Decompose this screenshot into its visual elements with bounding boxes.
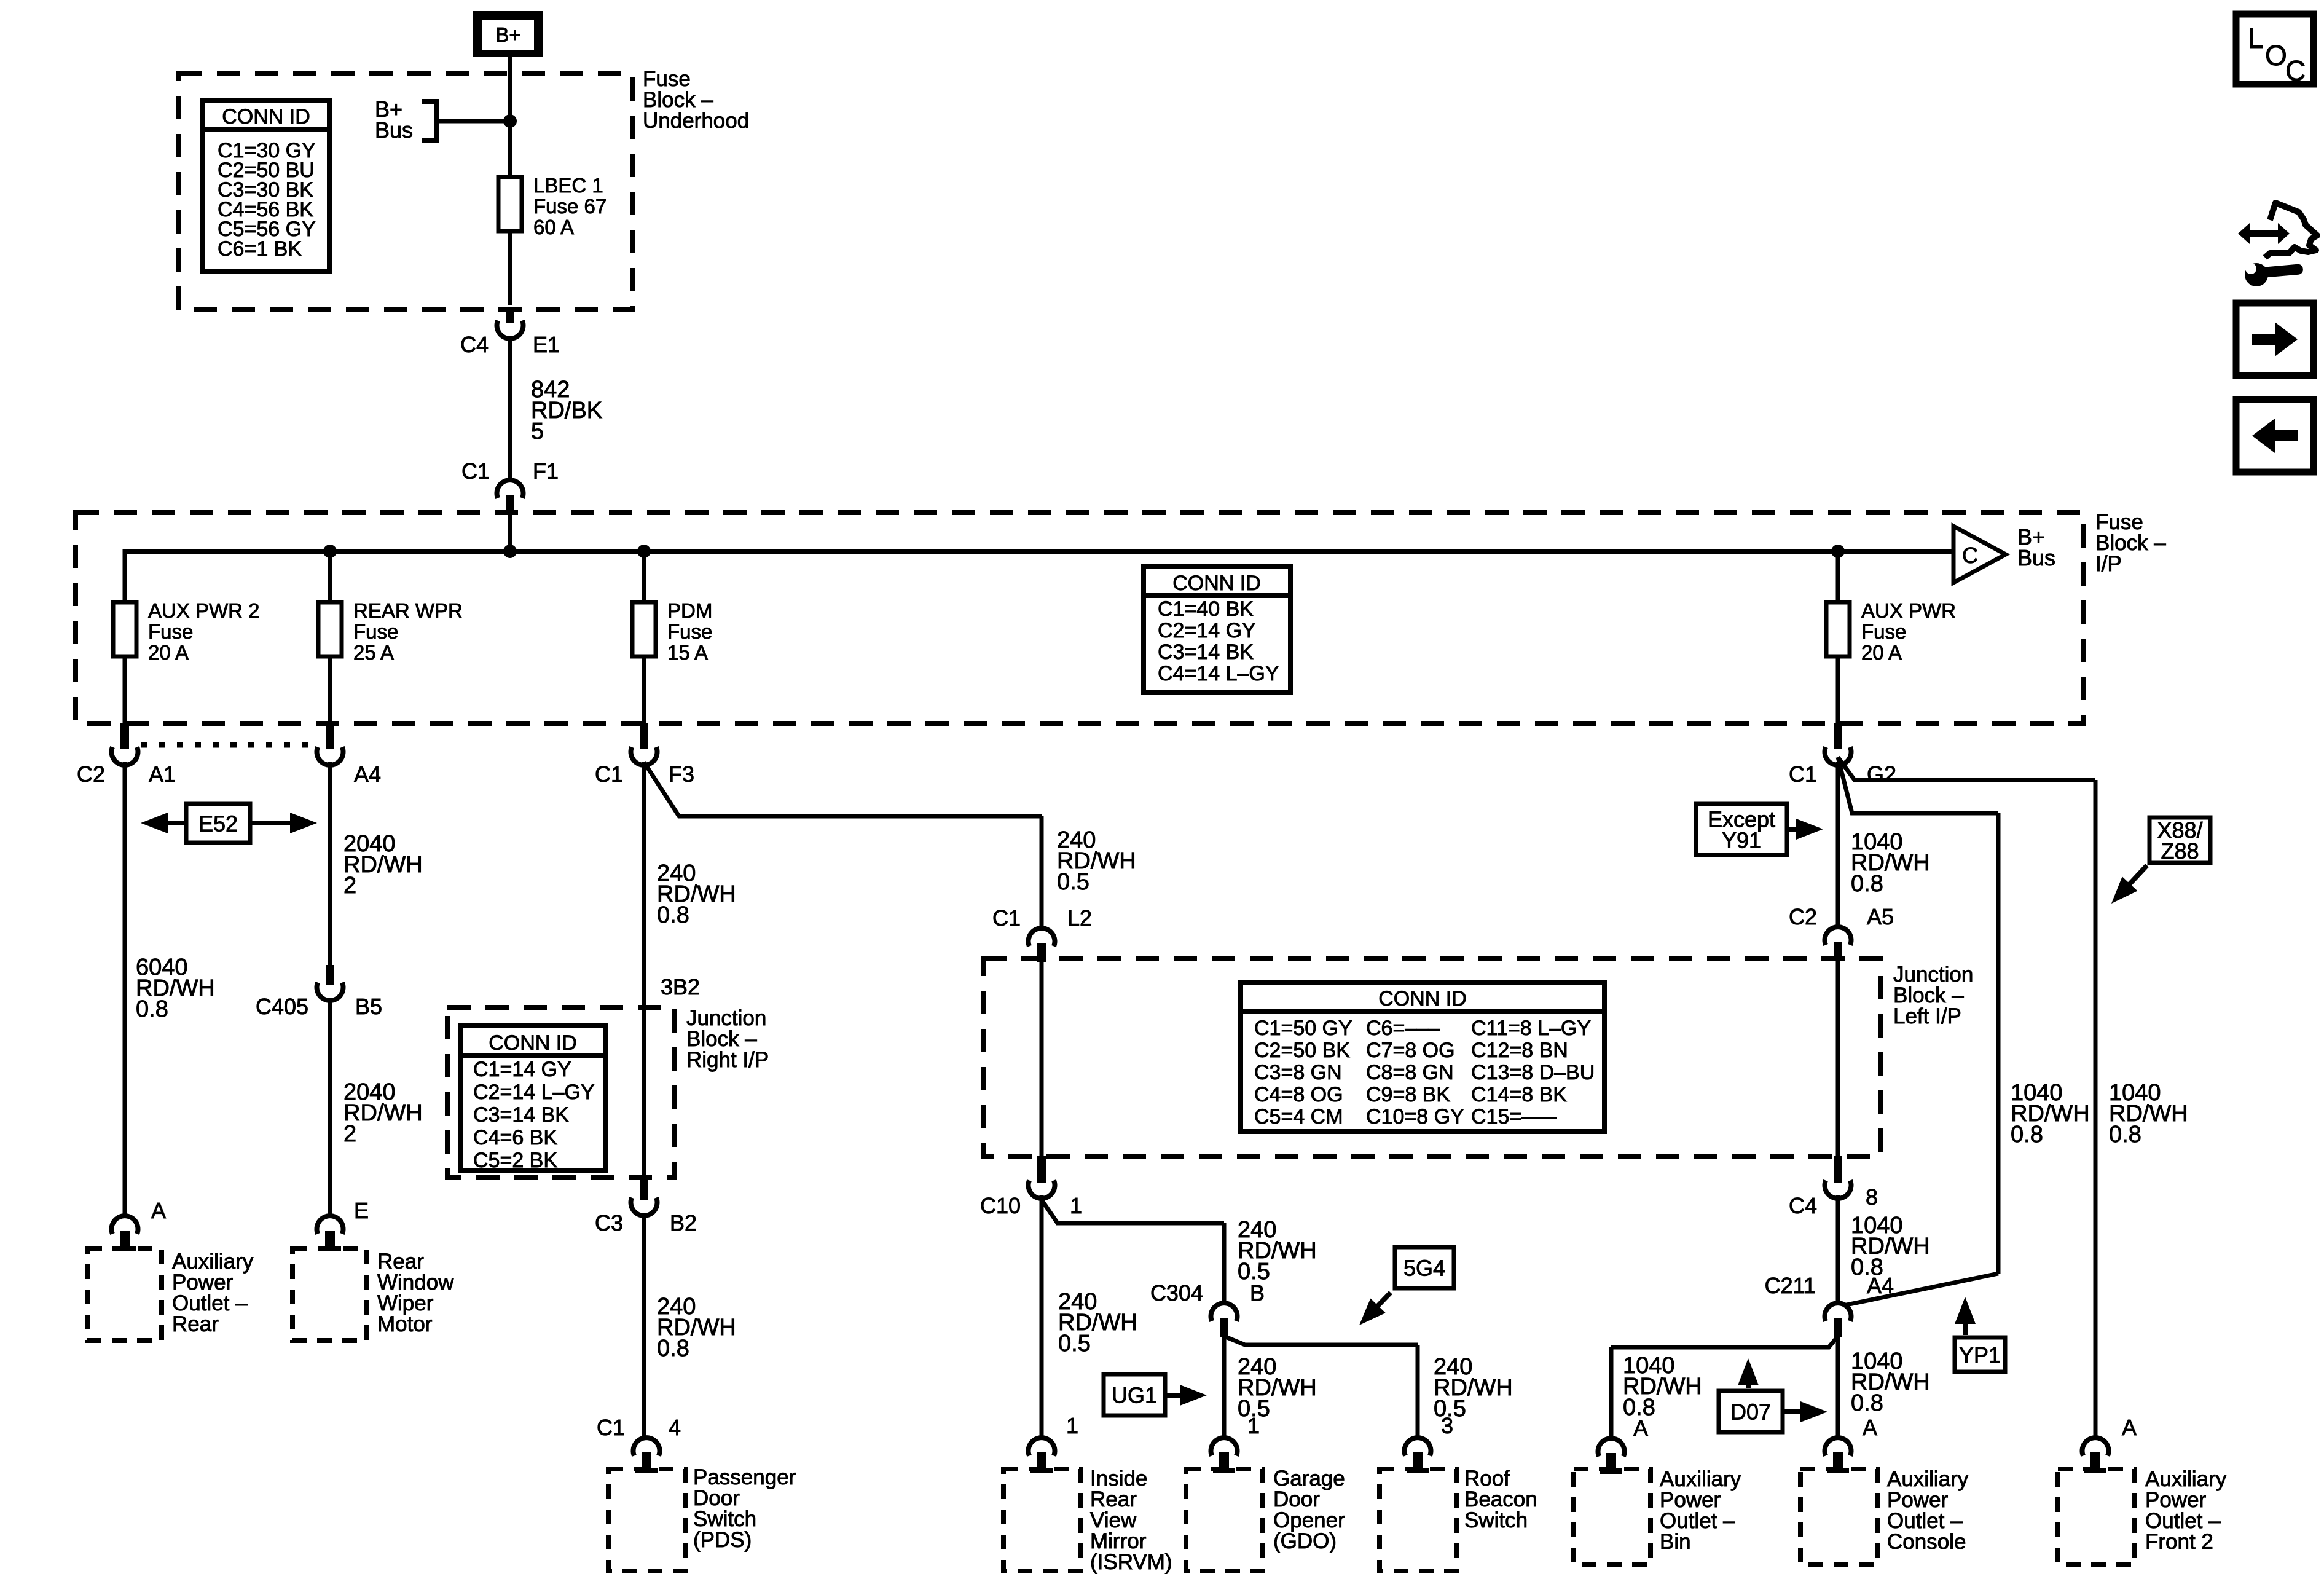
svg-text:C211: C211: [1765, 1273, 1816, 1298]
svg-text:C4: C4: [1789, 1193, 1817, 1218]
svg-text:A: A: [1633, 1416, 1648, 1441]
svg-text:C1: C1: [595, 762, 623, 787]
svg-text:Z88: Z88: [2161, 838, 2199, 864]
svg-text:A: A: [2122, 1415, 2137, 1440]
svg-text:8: 8: [1866, 1184, 1878, 1210]
label box E52: [186, 804, 250, 843]
label box 5G4: [1395, 1247, 1454, 1288]
Junction Block - Right I/P dashed box: [447, 1007, 674, 1178]
wire G2 branch to front 2: [1838, 757, 2095, 780]
svg-text:L2: L2: [1067, 905, 1092, 931]
YP1 reference: [1955, 1297, 1976, 1335]
fuse AUX PWR 20A: [1826, 602, 1850, 656]
wire 240 RD/WH 0.5 drop: [1040, 816, 1044, 929]
connector C10/1: [1029, 1156, 1055, 1199]
svg-text:3B2: 3B2: [661, 974, 700, 999]
wire bracket to main feed: [437, 119, 508, 124]
wire 240 RD/WH 0.5 to roof beacon: [1416, 1345, 1420, 1438]
svg-text:E1: E1: [533, 332, 560, 357]
connector C4/E1 (in-line): [497, 310, 524, 339]
wire bus to AUX PWR 2 fuse: [123, 549, 127, 602]
connector C1/4 (PDS): [634, 1438, 660, 1473]
Passenger Door Switch box: [608, 1469, 685, 1571]
CONN ID table (Junction Block - Right I/P): [460, 1025, 605, 1171]
wire bus to AUX PWR fuse: [1836, 551, 1840, 602]
svg-text:C4: C4: [460, 332, 489, 357]
svg-text:G2: G2: [1867, 762, 1896, 787]
fuse REAR WPR 25A: [318, 602, 342, 656]
svg-text:C1: C1: [461, 459, 490, 484]
connector tie line C2 (A1-A4): [141, 742, 315, 748]
wrench/vehicle service icon: [2238, 203, 2317, 286]
wire fuse to block edge: [642, 656, 646, 723]
UG1 reference: [1165, 1385, 1207, 1406]
wire 1040 RD/WH 0.8 G2 to A5: [1836, 762, 1840, 928]
connector A4: [317, 723, 343, 765]
label box Except Y91: [1696, 804, 1787, 855]
Fuse Block - Underhood dashed box: [179, 74, 632, 310]
CONN ID table (Fuse Block - I/P): [1144, 567, 1290, 693]
connector C3/B2: [631, 1178, 658, 1216]
Garage Door Opener box: [1186, 1469, 1263, 1571]
wire G2 branch YP1: [1838, 757, 1998, 813]
left arrow nav box: [2236, 400, 2314, 472]
fuse AUX PWR 2 20A: [113, 602, 136, 656]
svg-text:L: L: [2248, 22, 2264, 54]
connector C405/B5: [317, 965, 343, 1001]
svg-text:3: 3: [1441, 1413, 1453, 1438]
connector A (Aux Power Outlet - Console): [1824, 1438, 1851, 1473]
svg-text:C: C: [2285, 55, 2306, 87]
connector C4/8: [1824, 1156, 1851, 1199]
connector A (Aux Power Outlet - Front 2): [2082, 1438, 2108, 1473]
node bus/feed: [503, 545, 517, 558]
wire branch C10 to C304: [1042, 1200, 1224, 1223]
svg-text:JunctionBlock –Right I/P: JunctionBlock –Right I/P: [686, 1006, 769, 1072]
connector C2/A1: [112, 723, 138, 765]
svg-text:JunctionBlock –Left I/P: JunctionBlock –Left I/P: [1893, 963, 1973, 1028]
svg-text:C1: C1: [1789, 762, 1817, 787]
svg-text:YP1: YP1: [1959, 1342, 2001, 1368]
wire inside left junction block: [1836, 959, 1840, 1159]
svg-text:A: A: [1863, 1415, 1877, 1440]
label box D07: [1719, 1391, 1783, 1432]
svg-text:AuxiliaryPowerOutlet –Console: AuxiliaryPowerOutlet –Console: [1887, 1467, 1969, 1554]
svg-text:C2: C2: [1789, 904, 1817, 929]
wire C4/8 to C211: [1836, 1195, 1840, 1304]
svg-text:B5: B5: [355, 994, 382, 1019]
svg-text:CONN ID: CONN ID: [489, 1031, 577, 1055]
svg-text:1: 1: [1066, 1413, 1078, 1438]
svg-text:CONN ID: CONN ID: [1378, 987, 1467, 1010]
Auxiliary Power Outlet - Console box: [1800, 1469, 1877, 1565]
wire 240 RD/WH 0.8 to junction block: [642, 762, 646, 1180]
wire 1040 RD/WH 0.8 to front 2 outlet: [2094, 780, 2098, 1438]
connector C1/F1 (into Fuse Block I/P): [497, 480, 524, 514]
svg-text:A5: A5: [1867, 904, 1894, 929]
wire 1040 RD/WH 0.8 YP1: [1996, 813, 2001, 1274]
label box UG1: [1104, 1374, 1165, 1416]
wire feed into bus: [508, 513, 512, 551]
connector C1/G2: [1825, 723, 1851, 765]
wire 2040 RD/WH 2 upper: [328, 762, 332, 966]
CONN ID table (Fuse Block - Underhood): [203, 100, 329, 272]
5G4 reference: [1359, 1293, 1391, 1325]
svg-text:UG1: UG1: [1112, 1383, 1157, 1408]
wire 842 RD/BK 5: [508, 336, 512, 478]
connector C2/A5: [1824, 927, 1851, 961]
E52 reference arrows: [141, 813, 212, 833]
wire branch C304 to roof beacon: [1224, 1336, 1418, 1345]
right arrow nav box: [2236, 303, 2314, 376]
B+ battery terminal: [473, 11, 543, 57]
svg-text:B: B: [1250, 1280, 1265, 1305]
Except Y91 reference: [1787, 819, 1823, 840]
svg-text:C1=30 GYC2=50 BUC3=30 BKC4=56: C1=30 GYC2=50 BUC3=30 BKC4=56 BKC5=56 GY…: [218, 139, 316, 261]
svg-text:5G4: 5G4: [1403, 1256, 1445, 1281]
wire fuse to block edge: [1836, 656, 1840, 723]
svg-text:C1: C1: [597, 1415, 625, 1440]
node bus/PDM: [637, 545, 651, 558]
wire fuse to block edge: [123, 656, 127, 723]
svg-text:C1: C1: [992, 905, 1021, 931]
svg-text:C2: C2: [77, 762, 105, 787]
connector 1 (ISRVM): [1029, 1438, 1055, 1473]
CONN ID table (Junction Block - Left I/P): [1241, 982, 1604, 1132]
svg-text:C10: C10: [980, 1193, 1021, 1218]
D07 reference: [1738, 1358, 1759, 1388]
wire inside junction block: [1040, 959, 1044, 1159]
svg-text:Y91: Y91: [1722, 828, 1761, 853]
label box X88/Z88: [2149, 817, 2210, 863]
Roof Beacon Switch box: [1380, 1469, 1456, 1571]
svg-text:F3: F3: [669, 762, 694, 787]
wire 240 RD/WH 0.5 to ISRVM: [1040, 1195, 1044, 1438]
Auxiliary Power Outlet - Rear box: [87, 1248, 162, 1341]
wire 240 RD/WH 0.5 drop to C304: [1222, 1223, 1227, 1304]
svg-text:O: O: [2265, 39, 2287, 71]
wire branch to bin outlet: [1611, 1336, 1838, 1347]
svg-text:B2: B2: [670, 1210, 697, 1235]
node B+ bus tap: [503, 114, 517, 128]
svg-text:PDMFuse15 A: PDMFuse15 A: [667, 599, 712, 664]
wire B+ to LBEC fuse: [508, 57, 512, 177]
connector C304/B: [1211, 1303, 1238, 1337]
wire LBEC fuse to C4/E1: [508, 231, 512, 305]
Auxiliary Power Outlet - Front 2 box: [2058, 1469, 2135, 1565]
wire 2040 RD/WH 2 lower: [328, 998, 332, 1217]
wire bus to REAR WPR fuse: [328, 551, 332, 602]
svg-text:C405: C405: [256, 994, 308, 1019]
wire 6040 RD/WH 0.8: [123, 762, 127, 1217]
wire 1040 RD/WH 0.8 to bin outlet: [1609, 1347, 1614, 1438]
wire bus to PDM fuse: [642, 551, 646, 602]
svg-text:E52: E52: [198, 811, 238, 837]
X88/Z88 reference: [2111, 865, 2147, 904]
wire B+ bus bar: [125, 549, 1953, 554]
node bus/REAR WPR: [323, 545, 337, 558]
svg-text:C: C: [1962, 543, 1978, 568]
svg-text:1: 1: [1070, 1193, 1082, 1218]
fuse PDM 15A: [632, 602, 656, 656]
svg-text:A4: A4: [354, 762, 381, 787]
svg-text:A: A: [151, 1198, 166, 1223]
label box YP1: [1955, 1337, 2005, 1372]
connector 1 (GDO): [1211, 1438, 1238, 1473]
Inside Rear View Mirror box: [1003, 1469, 1080, 1571]
wire 240 RD/WH 0.5 to GDO: [1222, 1336, 1227, 1438]
svg-text:A1: A1: [149, 762, 176, 787]
svg-text:GarageDoorOpener(GDO): GarageDoorOpener(GDO): [1273, 1467, 1345, 1553]
B+ Bus bracket: [422, 101, 437, 141]
svg-text:C1=50 GYC2=50 BKC3=8 GNC4=8 OG: C1=50 GYC2=50 BKC3=8 GNC4=8 OGC5=4 CM: [1254, 1017, 1352, 1128]
svg-text:C304: C304: [1150, 1280, 1203, 1305]
triangle connector C (B+ Bus out): [1953, 526, 2006, 583]
wire fuse to block edge: [328, 656, 332, 723]
wire YP1 diagonal to C211: [1843, 1274, 1998, 1305]
connector A (Aux Power Outlet - Rear): [112, 1216, 138, 1251]
svg-text:4: 4: [669, 1415, 681, 1440]
svg-text:E: E: [354, 1198, 369, 1223]
svg-text:A4: A4: [1867, 1273, 1894, 1298]
LOC box icon: [2236, 14, 2314, 84]
svg-text:C3: C3: [595, 1210, 623, 1235]
Junction Block - Left I/P dashed box: [983, 959, 1880, 1156]
connector C1/F3: [631, 723, 658, 765]
connector 3 (Roof Beacon Switch): [1405, 1438, 1431, 1473]
svg-text:CONN ID: CONN ID: [1172, 572, 1261, 595]
svg-text:D07: D07: [1730, 1400, 1771, 1425]
connector C1/L2: [1029, 928, 1055, 962]
node bus/AUX PWR: [1831, 545, 1845, 558]
connector E (Rear Window Wiper Motor): [317, 1216, 343, 1251]
connector A (Aux Power Outlet - Bin): [1598, 1438, 1625, 1474]
Rear Window Wiper Motor box: [292, 1248, 367, 1341]
Fuse Block - I/P dashed box: [76, 513, 2083, 723]
wire 240 RD/WH 0.8 to PDS: [642, 1213, 646, 1438]
connector C211/A4: [1824, 1303, 1851, 1337]
svg-text:CONN ID: CONN ID: [222, 105, 310, 128]
fuse LBEC 1 Fuse 67 60A: [498, 177, 522, 231]
Auxiliary Power Outlet - Bin box: [1574, 1469, 1651, 1565]
svg-text:B+: B+: [495, 23, 520, 46]
svg-text:1: 1: [1247, 1413, 1260, 1438]
wire 1040 RD/WH 0.8 to console outlet: [1836, 1336, 1840, 1438]
svg-text:F1: F1: [533, 459, 559, 484]
wire F3 branch to L2: [644, 762, 1042, 816]
